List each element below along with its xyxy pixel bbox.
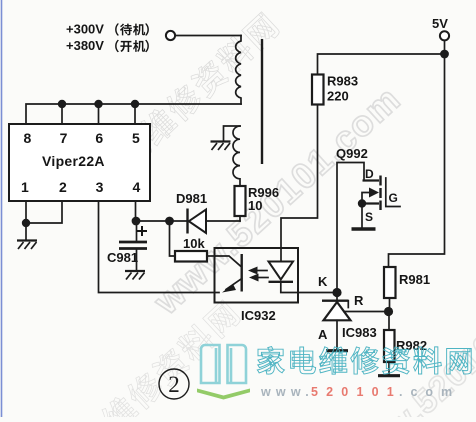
op-amp U1 Viper22A body — [9, 124, 150, 201]
watermark diagonal text 4 — [338, 257, 476, 422]
junction pin5 — [131, 100, 139, 108]
wire pin4 node to C981 — [136, 221, 138, 241]
wire node to 10k — [170, 221, 176, 256]
svg-text:10: 10 — [248, 198, 262, 213]
wire D981 anode to R996 — [206, 220, 240, 222]
opto LED — [269, 262, 294, 280]
junction pin1 node — [22, 219, 30, 227]
svg-text:www.: www. — [260, 385, 314, 399]
wire Q992 drain loop to K — [337, 163, 364, 293]
wire pin4 stub — [135, 201, 137, 221]
wire primary to Viper22A drain pins — [26, 104, 241, 124]
svg-text:C981: C981 — [107, 250, 138, 265]
watermark diagonal text 1 — [86, 10, 281, 195]
wire 10k to optocoupler — [207, 255, 215, 257]
svg-text:4: 4 — [133, 179, 141, 195]
junction pin6 — [94, 100, 102, 108]
resistor R981 — [384, 267, 396, 298]
optocoupler IC932 body — [215, 248, 299, 303]
watermark diagonal text 2 — [145, 78, 408, 323]
figure number 2 — [159, 369, 189, 399]
svg-text:5V: 5V — [432, 16, 448, 31]
capacitor C981 plus sign — [137, 226, 147, 236]
capacitor C981 — [119, 241, 147, 244]
wire R982 to ground — [388, 362, 390, 375]
transformer aux winding — [233, 126, 240, 186]
svg-text:Q992: Q992 — [336, 146, 368, 161]
wire pin5 stub — [134, 104, 136, 124]
wire LED cathode to K — [281, 282, 337, 293]
svg-text:220: 220 — [327, 89, 349, 104]
logo book icon — [201, 345, 246, 383]
svg-text:520101: 520101 — [311, 385, 402, 399]
svg-text:8: 8 — [24, 130, 32, 146]
ground (Q992 source) — [352, 227, 376, 230]
ground (pin1) — [17, 239, 37, 241]
wire R996 bottom — [239, 216, 241, 221]
transistor Q992 — [358, 167, 400, 224]
junction divider node — [384, 307, 393, 316]
junction 5V node — [440, 50, 449, 59]
svg-text:K: K — [318, 274, 328, 289]
diode D981 — [186, 209, 188, 234]
svg-text:3: 3 — [96, 179, 104, 195]
svg-text:R: R — [354, 293, 364, 308]
ground (C981) — [125, 270, 145, 272]
svg-text:R981: R981 — [399, 272, 430, 287]
svg-text:Viper22A: Viper22A — [42, 153, 105, 169]
input terminal — [166, 31, 175, 40]
svg-text:7: 7 — [60, 130, 68, 146]
resistor R983 — [312, 75, 324, 105]
wire pin7 stub — [61, 104, 63, 124]
wire aux top to ground — [224, 126, 241, 140]
wire R981 bottom — [389, 298, 391, 312]
svg-text:A: A — [318, 327, 328, 342]
junction pin7 — [58, 100, 66, 108]
opto light arrows — [256, 270, 267, 272]
svg-text:D: D — [365, 167, 374, 181]
svg-text:5: 5 — [132, 130, 140, 146]
left edge blue line — [1, 0, 3, 417]
svg-text:S: S — [365, 210, 373, 224]
ground (R982) — [378, 374, 400, 377]
wire Vdd node — [136, 220, 188, 222]
svg-text:G: G — [389, 191, 398, 205]
svg-text:10k: 10k — [183, 236, 205, 251]
wire R983 bottom to LED anode — [281, 105, 318, 262]
junction 10k branch node — [165, 217, 174, 226]
wire pin2 to pin1 — [26, 201, 62, 223]
transformer core — [261, 39, 263, 164]
svg-text:.com: .com — [399, 385, 460, 399]
wire Q992 source to ground — [361, 204, 363, 228]
wire pin6 stub — [98, 104, 100, 124]
svg-text:2: 2 — [59, 179, 67, 195]
svg-text:+300V: +300V — [66, 22, 104, 37]
resistor R996 — [235, 186, 246, 216]
ground (IC983 anode) — [326, 349, 348, 352]
svg-text:1: 1 — [21, 179, 29, 195]
junction K node — [332, 288, 341, 297]
svg-text:6: 6 — [95, 130, 103, 146]
wire reference to divider node — [344, 311, 389, 313]
wire C981 to ground — [136, 249, 138, 270]
svg-text:IC983: IC983 — [342, 325, 377, 340]
svg-text:IC932: IC932 — [241, 308, 276, 323]
svg-text:D981: D981 — [176, 191, 207, 206]
wire pin3 to opto emitter — [99, 201, 220, 293]
transformer primary winding — [236, 36, 241, 105]
svg-text:+380V: +380V — [66, 38, 104, 53]
logo text — [257, 347, 284, 375]
ground (aux winding) — [211, 140, 231, 142]
thyristor IC983 — [322, 293, 351, 351]
svg-text:2: 2 — [168, 372, 180, 397]
svg-text:R983: R983 — [327, 74, 358, 89]
junction pin4 node — [132, 217, 141, 226]
wire pin1 down — [25, 201, 27, 240]
watermark diagonal text 3 — [47, 298, 242, 422]
wire input to transformer — [175, 35, 241, 37]
wire 5V rail down to R981 — [389, 54, 445, 267]
wire R983 top to 5V rail — [318, 54, 446, 75]
resistor R982 — [384, 330, 395, 362]
opto phototransistor — [215, 256, 242, 267]
resistor 10k — [175, 251, 207, 262]
wire node to R982 — [388, 312, 390, 331]
wire 5V terminal down — [444, 41, 446, 55]
5V terminal — [440, 31, 449, 40]
